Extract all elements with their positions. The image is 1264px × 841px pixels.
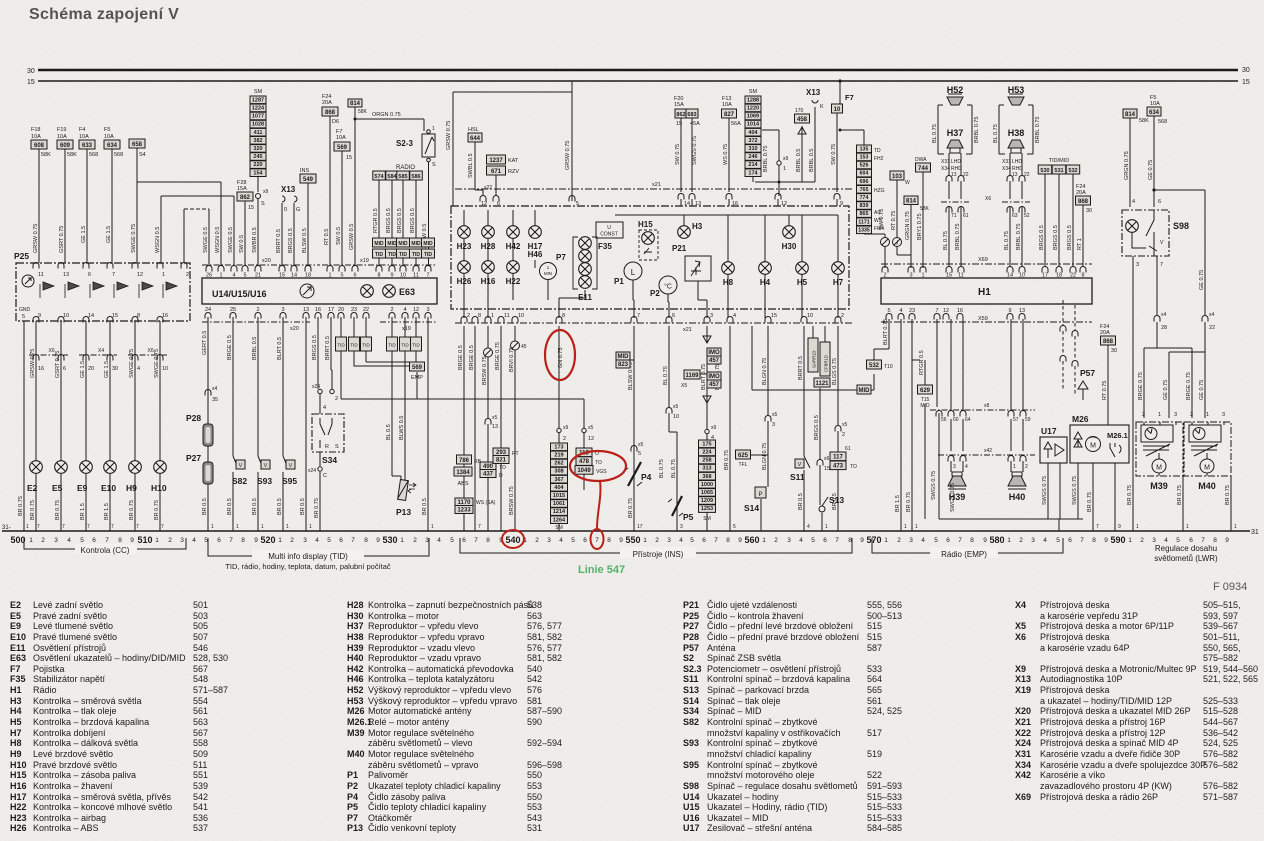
svg-text:4: 4: [679, 537, 683, 544]
svg-text:2: 2: [186, 272, 189, 278]
wire BRGS 0.5: [293, 203, 295, 265]
wire GRGN 0.75: [910, 205, 912, 256]
svg-text:TID: TID: [424, 252, 432, 258]
wire BR 0.75: [1132, 256, 1134, 531]
svg-text:1253: 1253: [701, 506, 713, 512]
handbrake switch S13: [819, 506, 825, 512]
svg-text:SM: SM: [749, 89, 758, 95]
svg-text:30: 30: [112, 366, 118, 372]
svg-text:BR 1.5: BR 1.5: [104, 503, 110, 520]
svg-text:30: 30: [1086, 208, 1092, 214]
indicator lamp H28: [482, 226, 495, 239]
svg-text:6: 6: [462, 537, 466, 544]
svg-text:BRBL 0.75: BRBL 0.75: [1016, 224, 1022, 250]
svg-text:1015: 1015: [553, 493, 565, 499]
svg-text:1220: 1220: [747, 106, 759, 112]
svg-text:10A: 10A: [1150, 101, 1160, 107]
wire SW 0.75: [837, 81, 840, 192]
svg-text:2: 2: [841, 313, 844, 319]
svg-text:308: 308: [554, 469, 563, 475]
connector line X20 lower: [202, 321, 310, 323]
connector line X20: [202, 264, 320, 266]
svg-text:SWGE 0.5: SWGE 0.5: [228, 227, 234, 253]
wire BR 1.5: [889, 319, 901, 531]
svg-text:868: 868: [1103, 339, 1114, 345]
svg-text:9: 9: [376, 537, 380, 544]
svg-text:BR 0.75: BR 0.75: [906, 492, 912, 512]
connector boxes MID TID: [397, 238, 410, 247]
svg-text:E11: E11: [578, 293, 592, 302]
svg-text:BRY1 0.75: BRY1 0.75: [917, 213, 923, 240]
wire GSRT 0.75: [64, 149, 66, 263]
svg-text:x9: x9: [711, 425, 717, 431]
svg-text:Kontrola (CC): Kontrola (CC): [81, 546, 130, 555]
svg-text:9: 9: [130, 537, 134, 544]
svg-text:BLWS 0.5: BLWS 0.5: [399, 416, 405, 440]
svg-text:BR 0.5: BR 0.5: [422, 498, 428, 515]
connector box TID: [340, 317, 342, 337]
svg-text:H5: H5: [797, 278, 808, 287]
svg-text:1: 1: [400, 537, 404, 544]
svg-text:V: V: [239, 463, 243, 469]
svg-text:BRGE 0.5: BRGE 0.5: [469, 345, 475, 370]
fuel level sensor P4: [628, 462, 641, 486]
svg-text:671: 671: [491, 169, 502, 175]
wire BL 0.75: [999, 105, 1033, 154]
svg-text:7: 7: [351, 537, 355, 544]
svg-text:1: 1: [1013, 464, 1016, 470]
svg-text:7: 7: [161, 524, 164, 530]
svg-text:S93: S93: [257, 476, 272, 486]
svg-text:GARR1D: GARR1D: [812, 351, 817, 368]
wire RT 1: [1082, 205, 1084, 266]
svg-text:15A: 15A: [674, 102, 684, 108]
wire BRBL 0.75: [753, 130, 815, 196]
wire into EMP: [415, 317, 417, 337]
indicator lamp H4: [759, 262, 772, 275]
svg-text:2: 2: [842, 432, 845, 438]
svg-text:1287: 1287: [252, 97, 264, 103]
svg-text:5: 5: [80, 537, 84, 544]
svg-text:8: 8: [607, 537, 611, 544]
wire BLRT 0.5 to switch S95: [282, 317, 284, 531]
wire BRGS 0.5: [402, 180, 404, 265]
svg-text:RADIO: RADIO: [396, 165, 415, 171]
connector box MID: [857, 385, 871, 394]
svg-text:S: S: [335, 444, 339, 450]
svg-text:71: 71: [951, 213, 957, 219]
svg-text:1170: 1170: [457, 500, 471, 506]
svg-text:M39: M39: [1150, 481, 1168, 491]
svg-text:1: 1: [1158, 412, 1161, 418]
voltage stabilizer F35: [596, 222, 623, 238]
wire: [1010, 153, 1022, 266]
svg-text:S95: S95: [282, 476, 297, 486]
svg-text:M26.1: M26.1: [1107, 431, 1128, 440]
svg-text:6: 6: [217, 537, 221, 544]
svg-text:8: 8: [137, 313, 140, 319]
wire BRRT 0.5 into S34: [331, 317, 332, 389]
wire BRYI 0.75: [922, 172, 924, 268]
svg-text:4: 4: [1164, 537, 1168, 544]
svg-text:586: 586: [411, 174, 420, 180]
svg-text:BRBL 0.75: BRBL 0.75: [1035, 117, 1041, 143]
svg-text:457: 457: [709, 382, 720, 388]
svg-text:3: 3: [680, 524, 683, 530]
svg-text:15: 15: [346, 155, 352, 161]
svg-text:GRSW 0.75: GRSW 0.75: [33, 224, 39, 253]
connector stack 1170 1233: [455, 498, 473, 506]
svg-text:7: 7: [637, 313, 640, 319]
svg-text:10A: 10A: [104, 134, 114, 140]
svg-text:821: 821: [496, 457, 507, 463]
svg-text:C: C: [323, 473, 327, 479]
svg-text:SW 0.75: SW 0.75: [831, 144, 837, 165]
svg-text:22: 22: [963, 172, 969, 178]
svg-text:TID: TID: [388, 343, 396, 348]
svg-text:SW 0.75: SW 0.75: [879, 209, 885, 230]
svg-text:M: M: [1156, 465, 1162, 472]
lamp in E63: [383, 285, 396, 298]
svg-text:3: 3: [1152, 537, 1156, 544]
svg-text:1: 1: [1136, 524, 1139, 530]
svg-text:SWGE 0.75: SWGE 0.75: [129, 349, 135, 378]
wire SWGS 0.75: [691, 118, 693, 192]
svg-text:BRGE 0.5: BRGE 0.5: [227, 335, 233, 360]
svg-text:6: 6: [1189, 537, 1193, 544]
svg-text:BL 0.75: BL 0.75: [1004, 231, 1010, 250]
svg-text:BL 0.75: BL 0.75: [993, 124, 999, 143]
svg-text:2: 2: [467, 313, 470, 319]
svg-text:1: 1: [29, 537, 33, 544]
svg-text:BRSW 0.75: BRSW 0.75: [482, 356, 488, 385]
svg-text:774: 774: [860, 195, 869, 201]
red highlight ellipse on 1049 VGS: [570, 451, 626, 481]
svg-text:BR 0.75: BR 0.75: [154, 500, 160, 520]
svg-text:5: 5: [1176, 537, 1180, 544]
svg-text:4: 4: [921, 537, 925, 544]
svg-text:BL 0.75: BL 0.75: [671, 459, 677, 478]
svg-text:13: 13: [1012, 172, 1018, 178]
svg-text:WSGN 0.5: WSGN 0.5: [215, 227, 221, 253]
svg-text:GE 0.75: GE 0.75: [1148, 160, 1154, 180]
svg-text:570: 570: [866, 535, 881, 545]
svg-text:MID: MID: [423, 241, 433, 247]
svg-text:45: 45: [521, 344, 527, 350]
svg-text:10A: 10A: [57, 134, 67, 140]
svg-text:1: 1: [825, 524, 828, 530]
svg-text:BR 0.75: BR 0.75: [55, 500, 61, 520]
connector box 814: [1123, 109, 1137, 118]
svg-text:SWBR 0.5: SWBR 0.5: [252, 227, 258, 253]
svg-text:532: 532: [1068, 168, 1077, 174]
svg-text:2: 2: [774, 537, 778, 544]
svg-text:22: 22: [1024, 172, 1030, 178]
svg-text:x20: x20: [290, 326, 299, 332]
svg-text:°C: °C: [664, 283, 672, 291]
svg-text:372: 372: [748, 138, 757, 144]
svg-text:BRGS 0.5: BRGS 0.5: [1039, 225, 1045, 250]
svg-text:61: 61: [845, 446, 851, 452]
svg-text:2: 2: [563, 436, 566, 442]
svg-text:BRBL 0.75: BRBL 0.75: [763, 146, 769, 172]
svg-text:12: 12: [588, 436, 594, 442]
wire: [495, 175, 497, 195]
svg-text:1000: 1000: [701, 482, 713, 488]
svg-text:220: 220: [253, 162, 262, 168]
connector boxes IMO 457: [703, 336, 711, 343]
wire GE 1.5 to lamp E9: [85, 321, 87, 531]
svg-text:x4: x4: [212, 386, 218, 392]
svg-text:SWGS 0.75: SWGS 0.75: [1072, 476, 1078, 505]
svg-text:224: 224: [702, 450, 712, 456]
tachometer P7: [540, 263, 557, 280]
svg-text:28: 28: [1161, 325, 1167, 331]
svg-text:H28: H28: [481, 242, 496, 251]
svg-text:x42: x42: [984, 448, 992, 454]
svg-text:4: 4: [965, 464, 968, 470]
svg-text:S14: S14: [744, 503, 759, 513]
wire BL 0.75 to P5: [669, 326, 677, 531]
svg-text:1214: 1214: [553, 509, 566, 515]
svg-text:x19: x19: [402, 326, 411, 332]
svg-text:P57: P57: [1080, 368, 1095, 378]
svg-text:170: 170: [795, 108, 804, 114]
svg-text:BRBL 0.5: BRBL 0.5: [252, 337, 258, 360]
connector box TID: [365, 317, 367, 337]
svg-text:7: 7: [112, 272, 115, 278]
svg-text:P28: P28: [186, 413, 201, 423]
wire BL 0.5: [391, 317, 393, 337]
svg-text:TID: TID: [375, 252, 383, 258]
svg-text:8: 8: [364, 537, 368, 544]
svg-text:12: 12: [137, 272, 143, 278]
internal wires to lamps: [464, 210, 838, 318]
red circle on 547: [591, 529, 604, 549]
svg-text:Multi info display (TID): Multi info display (TID): [268, 552, 348, 561]
plug connector: [484, 348, 493, 357]
svg-text:P13: P13: [396, 507, 411, 517]
connector boxes 113 478 1049 VGS: [576, 448, 592, 457]
svg-text:BLGN 0.75: BLGN 0.75: [762, 443, 768, 470]
svg-text:U: U: [607, 225, 611, 231]
svg-text:x22: x22: [484, 185, 492, 191]
svg-text:35: 35: [212, 397, 218, 403]
svg-text:H30: H30: [782, 242, 797, 251]
legend column 4: [1014, 600, 1016, 802]
wire BRRT 0.5 to S11: [803, 326, 805, 531]
svg-text:1264: 1264: [553, 517, 566, 523]
wire BLGN 0.75 to S14: [761, 326, 768, 531]
connector stack left of radio: [857, 145, 872, 153]
connector box 1121: [814, 378, 830, 387]
indicator lamp H3: [678, 226, 691, 239]
svg-text:22: 22: [1209, 325, 1215, 331]
connector X6: [941, 201, 969, 203]
svg-text:10: 10: [834, 107, 841, 113]
svg-text:1121: 1121: [815, 381, 829, 387]
wire BRVI 0.75 plug: [514, 326, 516, 531]
svg-text:532: 532: [869, 363, 880, 369]
display module U14/U15/U16 and E63: [202, 278, 437, 304]
ground wire BR 0.75: [23, 321, 25, 531]
svg-text:8: 8: [118, 537, 122, 544]
svg-text:2: 2: [897, 537, 901, 544]
svg-text:BL 0.5: BL 0.5: [386, 424, 392, 440]
wire to EMP box: [354, 351, 411, 366]
indicator lamp E10: [104, 461, 117, 474]
svg-text:15A: 15A: [237, 186, 247, 192]
svg-text:V: V: [264, 463, 268, 469]
svg-text:GE 0.75: GE 0.75: [1199, 270, 1205, 290]
svg-text:5: 5: [733, 524, 736, 530]
svg-text:1065: 1065: [701, 490, 713, 496]
svg-text:TID: TID: [350, 343, 358, 348]
wire SWBL 0.5: [475, 142, 483, 195]
svg-text:1: 1: [278, 537, 282, 544]
svg-text:2: 2: [1140, 537, 1144, 544]
wire BRGE 0.5: [474, 326, 476, 531]
ground rail 31: [2, 530, 1250, 532]
svg-text:1: 1: [432, 126, 435, 132]
svg-text:15: 15: [112, 313, 118, 319]
connector box 629 T15 MID: [918, 385, 933, 394]
fluid level switch S93: [258, 456, 263, 468]
red circle on 540: [502, 530, 524, 548]
wire to VGS: [583, 399, 585, 448]
svg-text:SW 0.5: SW 0.5: [239, 235, 245, 253]
wire GE 0.75: [1153, 116, 1155, 207]
svg-text:MID: MID: [859, 388, 871, 394]
svg-text:TID: TID: [337, 343, 345, 348]
svg-text:BR 0.75: BR 0.75: [18, 496, 24, 516]
svg-text:8: 8: [1092, 537, 1096, 544]
svg-text:1: 1: [309, 524, 312, 530]
svg-text:59: 59: [1025, 417, 1031, 423]
indicator lamp H7: [832, 262, 845, 275]
wire GRGN 0.75: [1129, 118, 1131, 207]
brake fluid switch S11: [804, 456, 810, 468]
svg-text:30: 30: [1242, 67, 1250, 74]
svg-text:8: 8: [562, 313, 565, 319]
svg-text:H7: H7: [833, 278, 844, 287]
connector box 625 TFL: [736, 450, 751, 459]
wire BL 0.75: [500, 326, 502, 531]
svg-text:BR 0.5: BR 0.5: [227, 498, 233, 515]
svg-text:1061: 1061: [553, 501, 565, 507]
svg-text:10: 10: [63, 313, 69, 319]
svg-text:S34: S34: [322, 455, 337, 465]
svg-text:531: 531: [1054, 168, 1063, 174]
svg-text:RT 0.75: RT 0.75: [891, 211, 897, 230]
svg-text:1: 1: [286, 524, 289, 530]
relay M26.1 contact: [1110, 443, 1121, 457]
wire SWGE 0.75 to lamp H9: [134, 321, 136, 531]
svg-text:10A: 10A: [336, 135, 346, 141]
svg-text:X5: X5: [681, 383, 687, 389]
ground link wire: [939, 519, 1083, 531]
svg-text:4: 4: [1132, 199, 1135, 205]
svg-text:BR 0.75: BR 0.75: [1177, 485, 1183, 505]
svg-text:H8: H8: [723, 278, 734, 287]
svg-text:H26: H26: [457, 277, 472, 286]
svg-text:437: 437: [483, 471, 494, 477]
svg-text:549: 549: [303, 177, 314, 183]
svg-text:BLGS 0.75: BLGS 0.75: [832, 358, 838, 385]
svg-text:633: 633: [82, 143, 93, 149]
svg-text:H22: H22: [506, 277, 521, 286]
legend column 3: [682, 600, 684, 834]
wire BR 0.75: [729, 326, 731, 531]
rail position numbers: [10, 535, 1229, 545]
indicator lamp H22: [507, 261, 520, 274]
svg-text:865: 865: [860, 211, 869, 217]
svg-text:P5: P5: [683, 512, 694, 522]
svg-text:GERT 0.5: GERT 0.5: [202, 331, 208, 355]
svg-text:SW 0.75: SW 0.75: [675, 144, 681, 165]
svg-text:2: 2: [168, 537, 172, 544]
connector X6: [29, 354, 68, 356]
connector box 814: [904, 196, 918, 205]
svg-text:S: S: [261, 201, 265, 207]
svg-text:6: 6: [1068, 537, 1072, 544]
svg-text:58K: 58K: [358, 109, 368, 115]
svg-text:BRGE 0.5: BRGE 0.5: [458, 345, 464, 370]
svg-text:530: 530: [1040, 168, 1049, 174]
svg-text:GE 0.75: GE 0.75: [1163, 380, 1169, 400]
wire WS 0.75: [728, 118, 730, 192]
svg-text:BRBL 0.75: BRBL 0.75: [955, 224, 961, 250]
svg-text:GE 1.5: GE 1.5: [81, 226, 87, 243]
svg-text:1069: 1069: [747, 114, 759, 120]
svg-text:510: 510: [137, 535, 152, 545]
indicator lamp H5: [796, 262, 809, 275]
svg-text:H3: H3: [692, 222, 703, 231]
svg-text:BRBL 0.5: BRBL 0.5: [809, 149, 815, 172]
svg-text:862: 862: [676, 112, 685, 118]
svg-text:F35: F35: [598, 242, 612, 251]
svg-text:P25: P25: [14, 251, 29, 261]
svg-text:3: 3: [547, 537, 551, 544]
svg-text:10: 10: [518, 313, 524, 319]
svg-text:BR 0.5: BR 0.5: [832, 493, 838, 510]
svg-text:S2-3: S2-3: [396, 139, 413, 148]
svg-text:4: 4: [807, 524, 810, 530]
svg-text:BL 0.75: BL 0.75: [932, 124, 938, 143]
svg-text:BR 1.5: BR 1.5: [80, 503, 86, 520]
indicator lamp H9: [129, 461, 142, 474]
green annotation Linie 547: [578, 564, 625, 576]
wire SWGE 0.5 dashed link: [183, 209, 185, 263]
svg-text:BR 1.5: BR 1.5: [895, 495, 901, 512]
svg-text:M26: M26: [1072, 414, 1089, 424]
wire: [1011, 319, 1023, 410]
svg-text:X6: X6: [148, 348, 154, 354]
bracket Pristroje (INS): [460, 538, 852, 553]
lamp in E63: [361, 285, 374, 298]
svg-text:H4: H4: [760, 278, 771, 287]
svg-text:5: 5: [638, 451, 641, 457]
svg-text:CFBR1D: CFBR1D: [824, 355, 829, 372]
connector boxes MID TID: [373, 238, 386, 247]
svg-text:S: S: [432, 162, 436, 168]
svg-text:x9: x9: [563, 425, 569, 431]
svg-text:590: 590: [1110, 535, 1125, 545]
svg-text:BRGS 0.5: BRGS 0.5: [312, 335, 318, 360]
svg-text:U14/U15/U16: U14/U15/U16: [212, 289, 267, 299]
svg-text:4: 4: [323, 405, 326, 411]
wire RT 0.75: [897, 226, 911, 268]
